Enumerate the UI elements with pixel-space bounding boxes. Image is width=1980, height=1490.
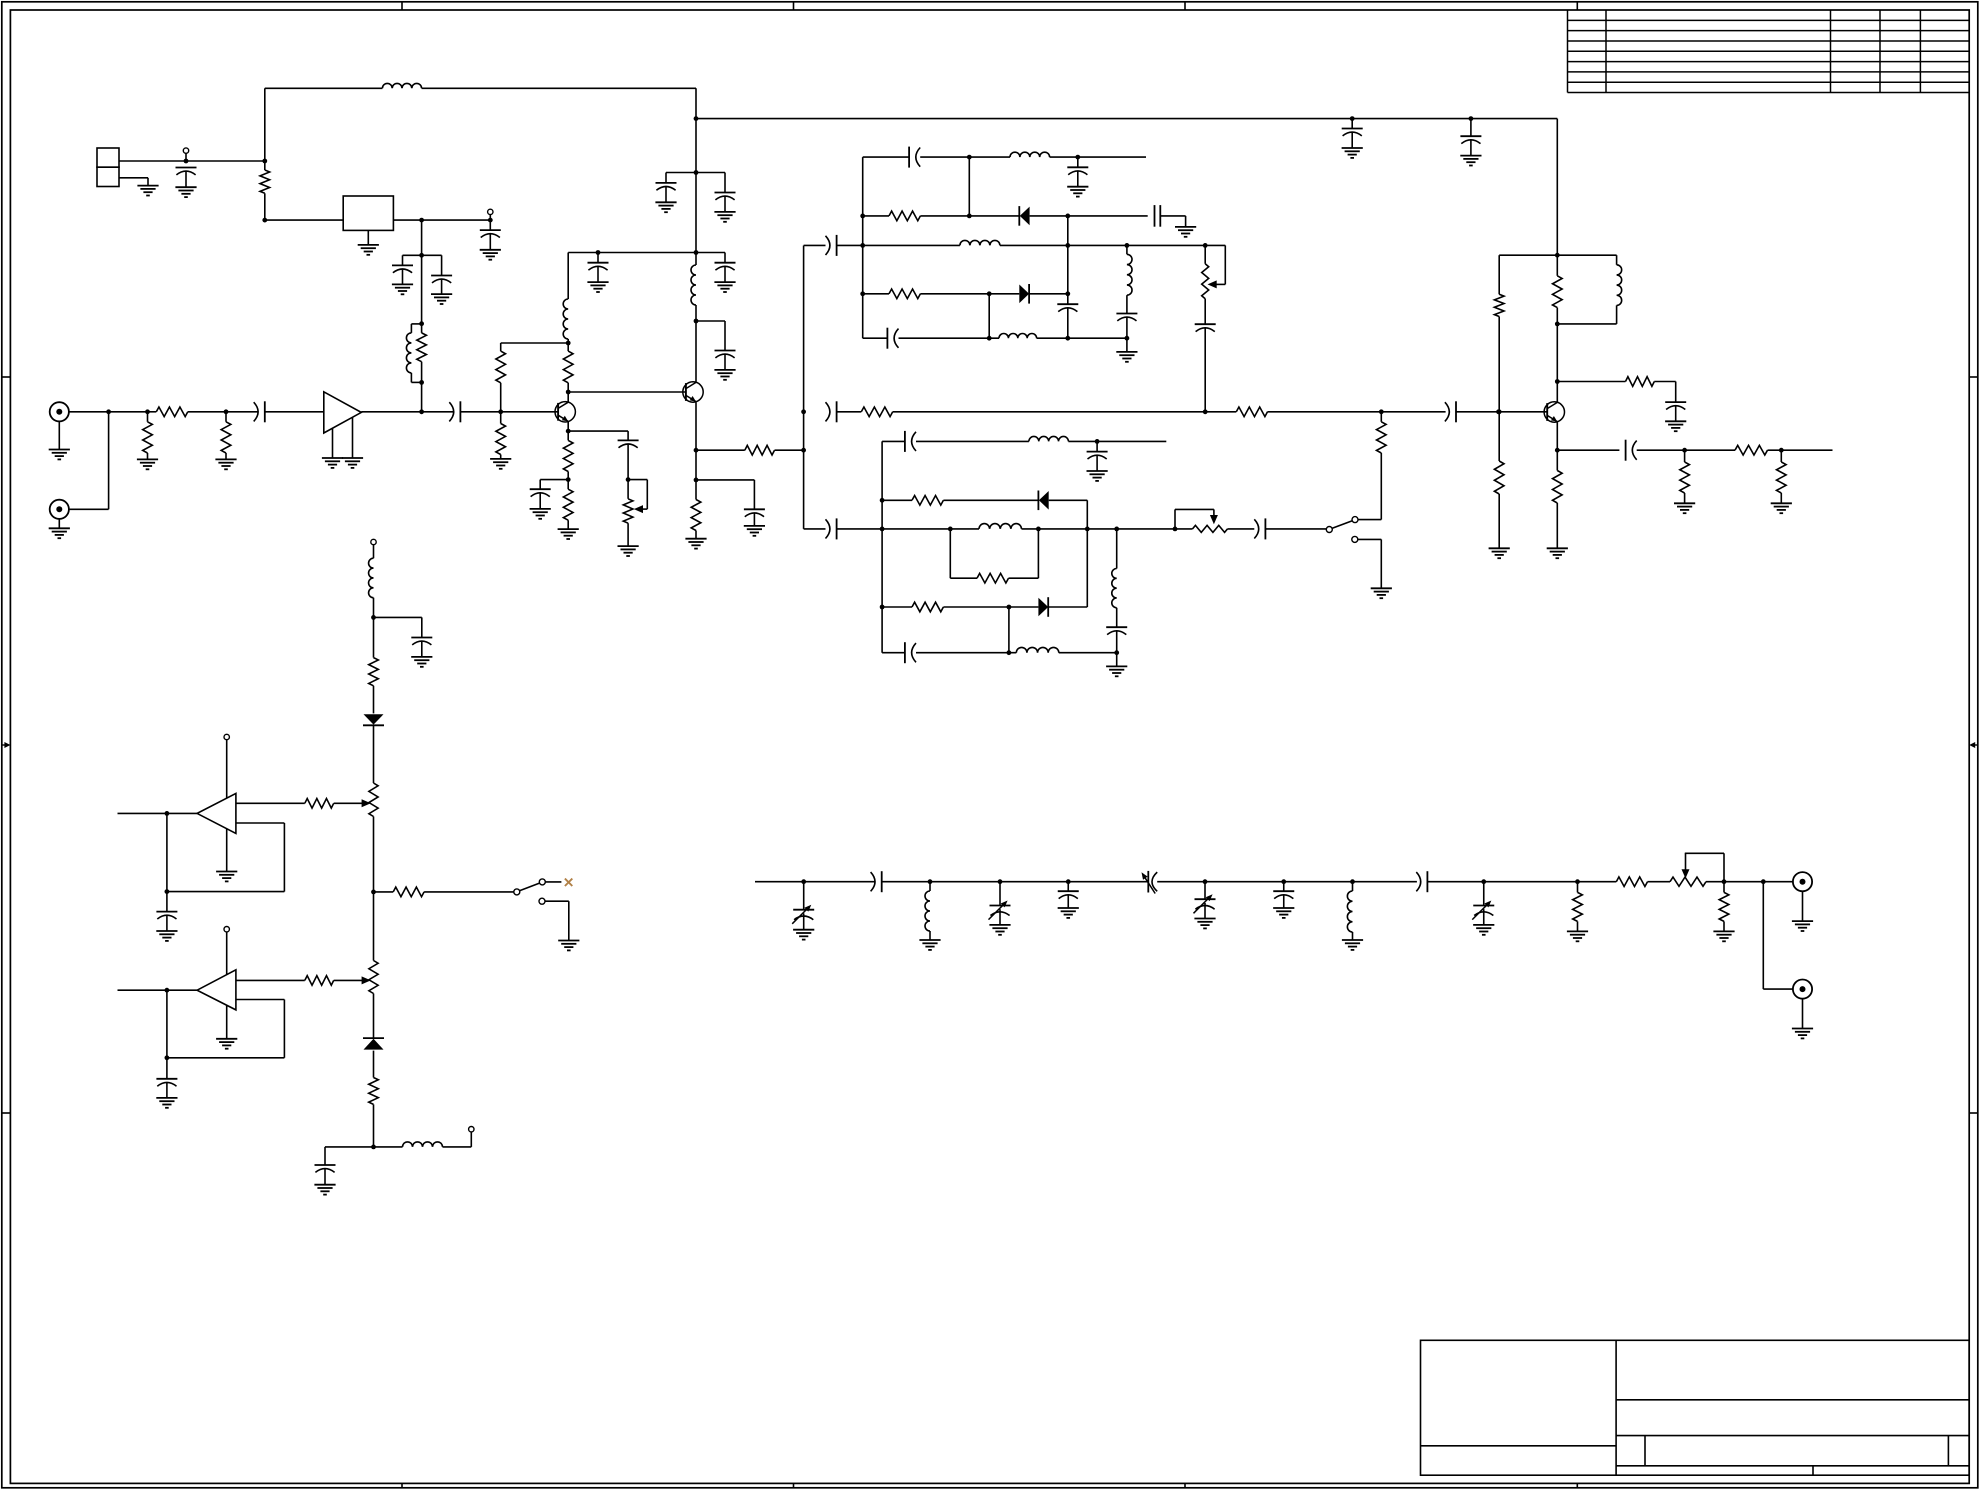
wire [837,528,883,530]
node [262,218,267,223]
inductor L11 [979,524,1022,529]
wire [666,173,696,183]
capacitor C8 [530,489,551,509]
node [1173,527,1178,532]
capacitor C4 [431,276,452,295]
inductor L3 [563,253,568,344]
node [987,336,992,341]
wire [1048,606,1087,608]
capacitor C19 [1067,157,1088,197]
node [1203,243,1208,248]
no-connect X [565,879,572,886]
trimmer RV5 [369,961,378,994]
node [880,498,885,503]
resistor R7 [496,412,506,459]
ground [392,284,413,294]
node [694,319,699,324]
wire [545,881,561,883]
capacitor C30 [905,431,916,452]
node [566,390,571,395]
node [1203,879,1208,884]
node [1114,527,1119,532]
capacitor C5 [254,401,265,422]
capacitor C23 [1116,295,1137,338]
wire [837,244,863,246]
node [371,890,376,895]
wire [421,255,423,323]
trimmer RV3 loop [1175,509,1218,529]
terminal TP2 [488,209,493,220]
wire mixer B bus [881,441,883,652]
wire [265,219,343,221]
trimmer cap CV2 [989,882,1011,925]
diode D1 [1019,206,1029,226]
resistor R2 [417,324,427,383]
amplifier U1 [324,392,362,433]
node [967,155,972,160]
wire [373,598,375,618]
node [566,429,571,434]
resistor R23 [1735,445,1768,455]
ground [587,282,608,292]
ground [1567,931,1588,941]
wire [421,220,423,255]
transistor Q2 [683,382,703,402]
wire [882,606,912,608]
capacitor C7 [618,440,639,479]
resistor R15 [861,407,892,417]
wire [968,157,970,216]
node [165,811,170,816]
wire [1768,449,1833,451]
capacitor C17 [826,235,837,256]
node [145,409,150,414]
node [1481,879,1486,884]
ground [1473,925,1494,935]
inductor L13 [1112,529,1117,608]
wire [1228,528,1255,530]
ground [1460,156,1481,166]
trimmer cap CV4 [1194,882,1216,919]
wire [920,293,1019,295]
opamp U4 [197,970,236,1010]
capacitor C35 [411,638,432,657]
wire [1009,529,1039,578]
wire [334,802,364,804]
ground [1175,227,1196,237]
ground [411,657,432,667]
ground [215,459,236,469]
node [801,448,806,453]
resistor R1 [260,161,270,220]
wire [1556,119,1558,256]
wire [882,652,905,654]
node [1065,291,1070,296]
resistor R33 [369,1051,379,1147]
node [694,116,699,121]
node [596,250,601,255]
ground [1771,503,1792,513]
capacitor C3 [392,265,413,284]
wire [696,253,725,263]
wire [916,652,1016,654]
resistor R32 [305,976,334,986]
ground [1106,666,1127,676]
inductor L12 [1016,647,1059,652]
wire [1059,652,1117,654]
node [165,1055,170,1060]
wire [1763,882,1793,989]
node [419,321,424,326]
wire [1499,255,1557,294]
ground [919,940,940,950]
ground [1273,908,1294,918]
resistor R24 [1777,450,1787,503]
capacitor C21 [1057,294,1078,338]
wire [920,215,1019,217]
node [1350,116,1355,121]
node [1065,214,1070,219]
ground [314,1185,335,1195]
terminal TP6 [469,1127,474,1132]
wire [373,892,375,961]
capacitor C25 [826,401,837,422]
wire [1556,422,1558,450]
wire [1358,519,1382,521]
ground [989,925,1010,935]
wire [352,417,354,458]
wire [1456,411,1547,413]
wire [166,990,168,1079]
resistor R21 [1626,377,1655,387]
node [1497,409,1502,414]
wire [863,215,889,217]
ground [1058,908,1079,918]
wire [332,428,334,458]
trimmer cap CV5 [1472,882,1494,925]
resistor R12 [691,480,701,539]
resistor R26 [912,496,943,506]
wire [1160,216,1185,227]
trimmer RV4 [369,783,378,892]
capacitor C38 [315,1165,336,1185]
wire [1067,216,1069,294]
inductor L1 [382,83,421,88]
wire [1116,653,1118,667]
trimmer RV3 [1193,525,1228,532]
wire [1265,528,1326,530]
wire [118,812,198,814]
resistor R30 [305,799,334,809]
resistor R28 [912,602,943,612]
wire [403,255,422,265]
node [694,478,699,483]
wire [374,617,422,637]
node [1066,879,1071,884]
wire mixer A bus [862,157,864,338]
node [1036,527,1041,532]
wire [899,337,1000,339]
wire [68,411,147,413]
ground [714,370,735,380]
capacitor C2 [480,220,501,250]
capacitor C34 [1254,518,1265,539]
title block [1421,1340,1970,1475]
terminal TP5 [224,927,229,975]
regulator U2 [343,196,393,230]
wire [1000,244,1225,246]
resistor R36 [1719,882,1729,932]
wire [501,342,569,344]
wire [863,337,888,339]
wire [1358,539,1382,588]
ground [1547,548,1568,558]
inductor L15 [403,1142,443,1147]
node [566,477,571,482]
wire [920,156,969,158]
node [801,409,806,414]
node [880,527,885,532]
pot RV6 [1670,853,1724,886]
inductor L14 [369,558,374,598]
ground [1792,1029,1813,1039]
ground [1194,919,1215,929]
wire [236,802,305,804]
ground [1713,931,1734,941]
node [1281,879,1286,884]
node [626,477,631,482]
resistor R16 [1236,407,1267,417]
wire [950,529,977,578]
node [987,291,992,296]
node [801,879,806,884]
wire [988,294,990,338]
wire [1068,440,1166,442]
wire [264,88,266,161]
capacitor C26 [1445,401,1456,422]
RCA jack J2 [50,500,69,519]
diode D4 [1038,597,1048,617]
wire [695,402,697,450]
ground [655,202,676,212]
wire [1706,881,1793,883]
wire bus [803,246,805,529]
wire [334,979,364,981]
ground [558,941,579,951]
wire [1648,881,1671,883]
wire [1022,528,1193,530]
node [1065,243,1070,248]
node [224,409,229,414]
wire row B [696,118,1557,120]
trimmer RV1 [623,480,633,546]
resistor R8 [563,343,573,392]
diode D2 [1019,284,1029,304]
capacitor C22 [887,328,898,349]
inductor L5 [1010,152,1050,157]
capacitor C14 [715,263,736,282]
transistor Q1 [555,402,575,422]
wiper arrow [362,799,371,807]
wire [422,87,696,89]
node [1496,409,1501,414]
node [165,988,170,993]
wire [882,440,905,442]
wire [460,411,500,413]
feedback wire [167,1000,285,1058]
series trimmer cap CV3 [1142,871,1158,894]
resistor R20 [1553,255,1563,324]
capacitor C24 [1195,299,1216,412]
capacitor C13 [588,253,609,283]
wire [1654,382,1675,403]
node [1779,448,1784,453]
capacitor C29 [826,518,837,539]
capacitor C39 [871,871,882,892]
ground [1489,548,1510,558]
resistor R5 [221,412,231,460]
node [1555,448,1560,453]
node [1007,605,1012,610]
wire [374,1146,403,1148]
wire [148,411,157,413]
capacitor C28 [1626,440,1637,461]
feedback wire [167,823,285,892]
wiper arrow [362,976,371,984]
wire [863,156,909,158]
wire [863,244,960,246]
diode D3 [1038,491,1048,511]
wire [695,88,697,265]
wire [893,411,1237,413]
ground [558,529,579,539]
ground [1342,940,1363,950]
ground [156,931,177,941]
wire [916,440,1029,442]
trimmer RV2 [1202,245,1209,298]
inductor L6 [960,240,1000,245]
wire [568,252,696,254]
node [1761,879,1766,884]
resistor R6 [496,343,506,412]
wire [969,156,1010,158]
wire [1637,449,1735,451]
wire [567,422,569,431]
diode D6 [363,1038,384,1050]
node [1203,409,1208,414]
node [1114,650,1119,655]
wire [226,829,228,872]
wire [58,421,60,450]
node [1065,336,1070,341]
resistor R25 [1553,450,1563,548]
node [1722,879,1727,884]
wire [804,528,826,530]
wire [1802,891,1804,921]
node [419,380,424,385]
inductor L4 [691,265,696,305]
capacitor C18 [909,147,920,168]
wire [696,321,725,351]
wire [943,499,1038,501]
node [860,291,865,296]
resistor R18 [1494,294,1504,412]
node [1095,439,1100,444]
capacitor C31 [1087,441,1108,481]
ground [1371,588,1392,598]
node [1555,322,1560,327]
wire [422,255,442,275]
resistor R9 [563,431,573,480]
wire [775,449,804,451]
node [880,605,885,610]
wire [1126,338,1128,352]
DC jack J5 [97,148,119,187]
wire [226,1005,228,1039]
ground [216,872,237,882]
trimmer cap CV1 [792,882,814,930]
ground [1792,921,1813,931]
wire [695,450,697,480]
node [566,341,571,346]
capacitor C36 [156,912,177,931]
wire [1030,215,1068,217]
capacitor C11 [656,183,677,202]
node [184,159,189,164]
switch SW1 [1326,517,1358,543]
wire [119,178,148,186]
node [419,253,424,258]
wire [421,382,423,411]
node [262,159,267,164]
RCA jack J4 [1793,980,1812,999]
ground [618,546,639,556]
ground [137,186,158,196]
resistor R11 [745,445,775,455]
wire [540,480,568,490]
wire [696,449,745,451]
capacitor C12 [715,193,736,212]
ground [1342,148,1363,158]
node [967,214,972,219]
wire [367,230,369,245]
wire [68,412,108,510]
resistor R27 [977,573,1009,583]
ground [137,459,158,469]
wire [1557,449,1619,451]
ground [322,458,343,468]
wire [1037,337,1127,339]
node [106,409,111,414]
node [371,1145,376,1150]
node [1555,379,1560,384]
node [1350,879,1355,884]
node [1469,116,1474,121]
trimmer wiper [1208,245,1226,288]
wire [1268,411,1446,413]
wire [1029,293,1068,295]
node [694,250,699,255]
capacitor C9 [1342,119,1363,148]
ground [49,450,70,460]
inductor L8 [1127,245,1132,295]
ground [431,294,452,304]
wire [325,1147,374,1165]
wire [424,891,514,893]
ground [49,528,70,538]
node [1555,253,1560,258]
wire [393,219,490,221]
